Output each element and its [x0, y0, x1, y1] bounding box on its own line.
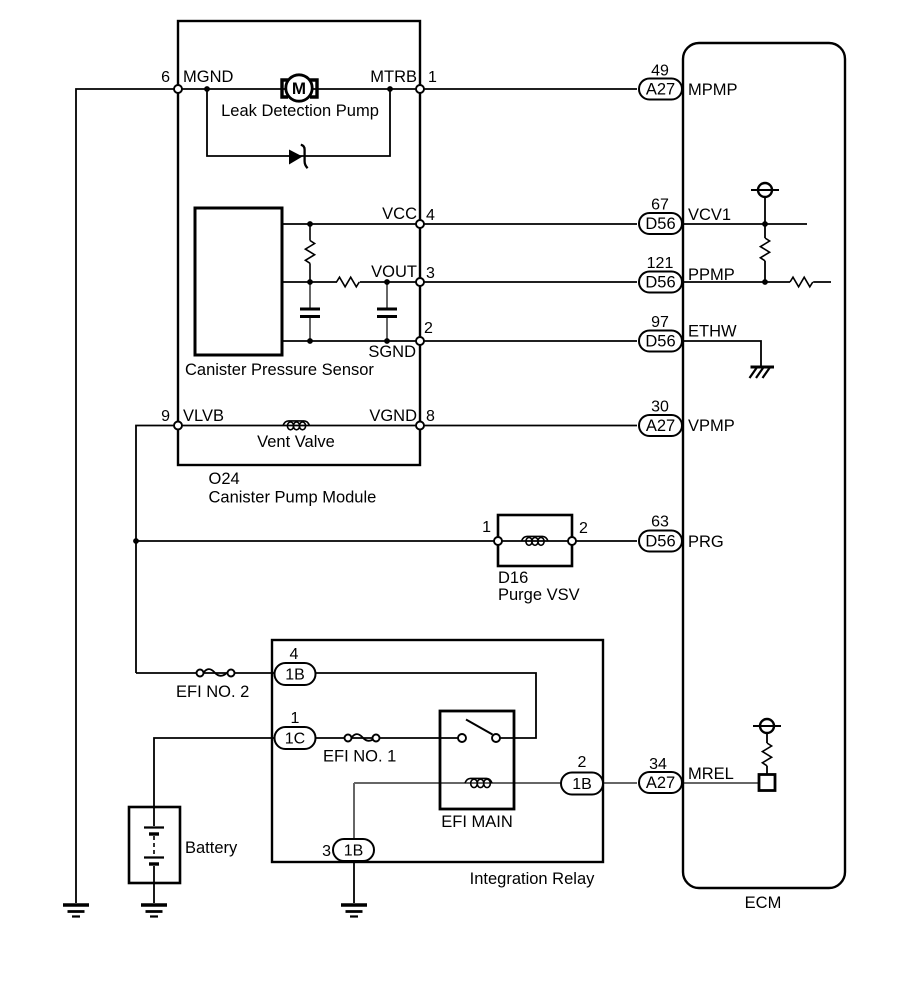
svg-text:A27: A27 — [646, 417, 675, 435]
svg-text:VLVB: VLVB — [183, 407, 224, 425]
svg-text:MPMP: MPMP — [688, 81, 738, 99]
svg-text:MTRB: MTRB — [370, 68, 417, 86]
svg-text:Canister Pump Module: Canister Pump Module — [209, 489, 377, 507]
svg-text:D56: D56 — [645, 533, 675, 551]
svg-text:6: 6 — [161, 69, 170, 86]
svg-text:1B: 1B — [285, 667, 305, 684]
svg-text:63: 63 — [651, 514, 669, 531]
svg-text:Purge VSV: Purge VSV — [498, 586, 580, 604]
svg-text:3: 3 — [322, 843, 331, 860]
svg-text:D56: D56 — [645, 333, 675, 351]
svg-text:ECM: ECM — [745, 894, 782, 912]
svg-text:A27: A27 — [646, 81, 675, 99]
svg-text:4: 4 — [290, 646, 299, 663]
svg-text:EFI MAIN: EFI MAIN — [441, 813, 513, 831]
svg-text:3: 3 — [426, 265, 435, 282]
svg-text:1C: 1C — [285, 731, 305, 748]
svg-text:O24: O24 — [209, 470, 240, 488]
svg-text:D56: D56 — [645, 274, 675, 292]
svg-text:1: 1 — [482, 519, 491, 536]
svg-text:MREL: MREL — [688, 765, 734, 783]
svg-text:Integration Relay: Integration Relay — [470, 870, 595, 888]
svg-text:M: M — [292, 79, 306, 98]
svg-text:Leak Detection Pump: Leak Detection Pump — [221, 102, 379, 120]
svg-text:1B: 1B — [344, 843, 364, 860]
svg-text:2: 2 — [579, 520, 588, 537]
svg-text:EFI NO. 2: EFI NO. 2 — [176, 683, 249, 701]
svg-text:2: 2 — [578, 754, 587, 771]
svg-text:9: 9 — [161, 408, 170, 425]
svg-text:8: 8 — [426, 408, 435, 425]
svg-text:1: 1 — [428, 69, 437, 86]
svg-text:A27: A27 — [646, 774, 675, 792]
svg-text:MGND: MGND — [183, 68, 233, 86]
svg-text:EFI NO. 1: EFI NO. 1 — [323, 748, 396, 766]
svg-text:67: 67 — [651, 197, 669, 214]
svg-text:D56: D56 — [645, 215, 675, 233]
svg-text:PRG: PRG — [688, 533, 724, 551]
svg-text:97: 97 — [651, 314, 669, 331]
svg-text:VOUT: VOUT — [371, 263, 417, 281]
svg-text:D16: D16 — [498, 569, 528, 587]
svg-text:VPMP: VPMP — [688, 417, 735, 435]
svg-text:VGND: VGND — [369, 407, 417, 425]
svg-text:Vent Valve: Vent Valve — [257, 433, 335, 451]
svg-text:1: 1 — [291, 710, 300, 727]
svg-text:1B: 1B — [572, 776, 592, 793]
svg-text:VCC: VCC — [382, 205, 417, 223]
svg-text:49: 49 — [651, 63, 669, 80]
svg-text:30: 30 — [651, 399, 669, 416]
svg-text:Battery: Battery — [185, 839, 238, 857]
svg-text:121: 121 — [647, 255, 674, 272]
svg-text:34: 34 — [649, 756, 667, 773]
svg-text:2: 2 — [424, 320, 433, 337]
svg-text:4: 4 — [426, 207, 435, 224]
svg-text:VCV1: VCV1 — [688, 206, 731, 224]
svg-text:PPMP: PPMP — [688, 266, 735, 284]
svg-text:Canister Pressure Sensor: Canister Pressure Sensor — [185, 361, 374, 379]
svg-text:ETHW: ETHW — [688, 323, 737, 341]
svg-text:SGND: SGND — [368, 343, 416, 361]
